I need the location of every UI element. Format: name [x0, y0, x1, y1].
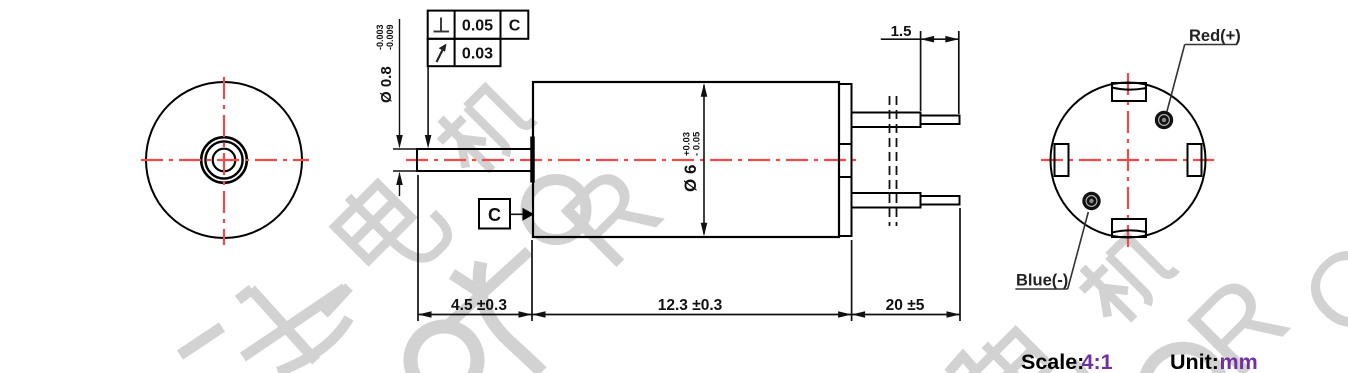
- svg-text:4.5 ±0.3: 4.5 ±0.3: [451, 297, 507, 314]
- svg-text:C: C: [488, 205, 501, 225]
- svg-text:- 0.05: - 0.05: [692, 131, 703, 156]
- svg-text:-0.003: -0.003: [375, 24, 385, 50]
- svg-text:Scale:: Scale:: [1021, 350, 1084, 373]
- svg-text:20 ±5: 20 ±5: [886, 297, 925, 314]
- svg-text:1.5: 1.5: [891, 23, 912, 40]
- svg-text:Blue(-): Blue(-): [1016, 272, 1068, 290]
- svg-text:12.3 ±0.3: 12.3 ±0.3: [658, 297, 723, 314]
- svg-text:0.05: 0.05: [462, 18, 493, 35]
- svg-text:Ø 0.8: Ø 0.8: [378, 66, 395, 103]
- svg-text:4:1: 4:1: [1082, 350, 1113, 373]
- svg-text:Red(+): Red(+): [1189, 27, 1241, 45]
- svg-text:C: C: [509, 18, 521, 35]
- svg-text:Ø 6: Ø 6: [681, 165, 700, 192]
- svg-text:R: R: [537, 142, 686, 291]
- svg-text:Unit:: Unit:: [1170, 350, 1219, 373]
- svg-text:0.03: 0.03: [462, 46, 493, 63]
- svg-text:-0.009: -0.009: [385, 24, 395, 50]
- svg-text:mm: mm: [1220, 350, 1258, 373]
